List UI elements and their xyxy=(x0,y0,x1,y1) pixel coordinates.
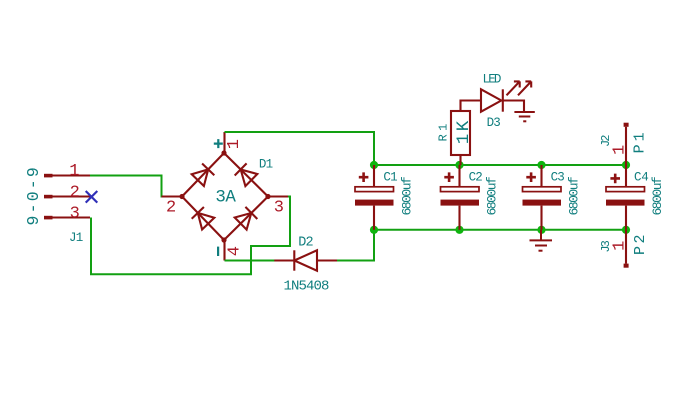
svg-text:1: 1 xyxy=(69,162,79,181)
svg-text:1: 1 xyxy=(611,145,630,155)
svg-text:D2: D2 xyxy=(298,236,313,251)
bridge pin name + xyxy=(214,139,223,148)
svg-text:LED: LED xyxy=(483,73,501,87)
connector J3 / P2 pin stub xyxy=(624,264,629,268)
svg-text:6800uf: 6800uf xyxy=(650,177,665,216)
capacitor C3 xyxy=(523,165,562,230)
bridge diode bottom-right xyxy=(235,207,258,230)
svg-text:2: 2 xyxy=(166,199,176,218)
svg-text:1N5408: 1N5408 xyxy=(284,279,330,295)
bottom rail wire xyxy=(374,229,626,231)
bridge node dots xyxy=(179,150,270,242)
wire J1 pin3 to bridge node 3 xyxy=(91,197,290,275)
svg-text:J1: J1 xyxy=(69,231,83,245)
svg-text:C4: C4 xyxy=(634,171,648,185)
wire J1 pin1 to bridge node 2 xyxy=(90,176,164,197)
svg-text:6800uf: 6800uf xyxy=(567,177,582,216)
junction dots bottom rail xyxy=(370,226,630,234)
connector J1 pin stubs xyxy=(44,174,53,220)
connector J1 pin lines xyxy=(53,176,91,218)
C4 plus sign xyxy=(610,174,620,184)
svg-text:1K: 1K xyxy=(454,118,474,144)
svg-text:D3: D3 xyxy=(487,116,501,130)
capacitor C2 xyxy=(441,165,480,230)
C2 plus sign xyxy=(444,172,454,182)
wire bridge - to D2 xyxy=(225,260,276,262)
svg-text:R1: R1 xyxy=(436,120,450,141)
svg-text:6800uf: 6800uf xyxy=(400,177,415,216)
bridge pin 3 (right) xyxy=(268,195,288,197)
ground on bottom rail xyxy=(530,230,553,251)
bridge pin 1 (top) xyxy=(223,132,225,153)
bridge diode top-right xyxy=(235,163,258,186)
J2 pin line xyxy=(625,127,627,165)
svg-text:3A: 3A xyxy=(215,188,236,208)
J3 pin line xyxy=(625,230,627,264)
C1 plus sign xyxy=(359,172,369,182)
svg-text:4: 4 xyxy=(226,246,245,256)
ground at LED cathode xyxy=(514,112,534,121)
capacitor C4 xyxy=(606,165,645,230)
svg-text:P2: P2 xyxy=(632,232,649,255)
svg-text:6800uf: 6800uf xyxy=(485,177,500,216)
bridge diode bottom-left xyxy=(192,207,215,230)
svg-text:P1: P1 xyxy=(631,129,648,153)
no-connect X on J1 pin 2 xyxy=(86,191,98,203)
svg-text:C1: C1 xyxy=(383,171,397,185)
capacitor C1 xyxy=(355,165,394,230)
svg-text:3: 3 xyxy=(274,199,284,218)
top rail wire xyxy=(374,164,626,166)
LED arrows xyxy=(507,81,532,95)
svg-text:3: 3 xyxy=(70,205,80,224)
wire bridge + to top rail xyxy=(225,132,375,165)
svg-text:2: 2 xyxy=(70,183,80,202)
svg-text:C3: C3 xyxy=(551,171,565,185)
junction dots top rail xyxy=(370,161,630,169)
diode D2 xyxy=(274,250,337,270)
svg-text:1: 1 xyxy=(225,139,244,149)
bridge pin 4 (bottom) xyxy=(223,240,225,261)
svg-text:D1: D1 xyxy=(259,158,273,172)
resistor R1 xyxy=(451,101,481,166)
svg-text:9-0-9: 9-0-9 xyxy=(24,165,43,226)
LED D3 xyxy=(481,89,524,112)
svg-text:C2: C2 xyxy=(469,171,483,185)
bridge diode top-left xyxy=(192,164,215,187)
C3 plus sign xyxy=(526,172,536,182)
svg-text:1: 1 xyxy=(611,241,630,251)
wire D2 anode to bottom rail xyxy=(337,230,374,261)
bridge pin name - (rotated) xyxy=(217,247,219,256)
connector J2 / P1 pin stub xyxy=(624,123,629,127)
bridge pin 2 (left) xyxy=(162,195,183,197)
bridge rectifier D1 diamond xyxy=(182,153,268,240)
